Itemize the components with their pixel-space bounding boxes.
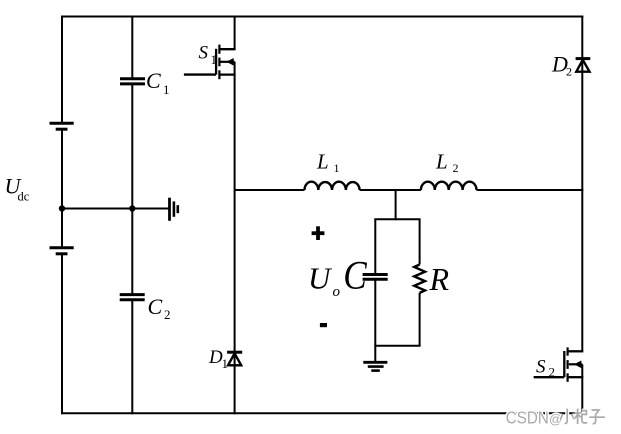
wire load box bottom [374, 345, 420, 347]
svg-text:o: o [333, 284, 341, 300]
label D2 [551, 52, 572, 79]
label S2 [536, 356, 555, 379]
svg-text:L: L [316, 150, 329, 174]
label minus sign [320, 323, 327, 327]
label D1 [208, 347, 228, 371]
svg-text:1: 1 [163, 82, 170, 97]
wire left rail middle segment [61, 129, 63, 248]
wire load box left lower (C branch) [374, 279, 376, 346]
label L1 [316, 150, 340, 175]
capacitor C2 [120, 295, 145, 300]
svg-text:C: C [148, 294, 163, 319]
wire filter output segment [477, 189, 584, 191]
svg-text:2: 2 [549, 365, 556, 380]
inductor L2 [421, 182, 477, 190]
wire capacitor-branch upper segment [131, 16, 133, 79]
label L2 [435, 150, 459, 175]
svg-text:1: 1 [222, 356, 229, 371]
diode D1 [227, 352, 242, 365]
watermark glyph xiao [560, 409, 574, 424]
svg-text:L: L [435, 150, 448, 174]
watermark glyph qi [574, 409, 587, 424]
svg-text:S: S [536, 356, 546, 377]
wire bottom bus [61, 412, 583, 414]
watermark glyph zi [589, 410, 605, 424]
resistor R [414, 265, 425, 293]
wire between L1 and L2 [360, 189, 421, 191]
wire load box right upper (R branch) [419, 219, 421, 264]
svg-text:CSDN: CSDN [506, 408, 549, 428]
svg-text:dc: dc [18, 190, 30, 204]
wire top bus [61, 16, 583, 18]
wire left rail upper segment [61, 16, 63, 124]
battery B2 [50, 248, 74, 254]
wire S2 source segment [581, 364, 583, 414]
ground load (earth) [363, 362, 387, 370]
wire left rail lower segment [61, 254, 63, 414]
label plus sign [312, 226, 325, 240]
svg-text:2: 2 [164, 307, 171, 322]
wire S2 gate lead [534, 376, 565, 378]
transistor S1 (MOSFET) [216, 45, 236, 80]
svg-text:C: C [343, 253, 367, 298]
svg-text:C: C [146, 68, 161, 93]
node junction dot capacitor branch midpoint [129, 205, 135, 211]
capacitor C1 [120, 79, 145, 84]
node junction dot left rail midpoint [59, 205, 65, 211]
diode D2 [576, 59, 591, 72]
svg-text:2: 2 [453, 161, 459, 175]
wire ground stub [374, 346, 376, 363]
wire S1 source / D1 branch [234, 62, 236, 414]
ground midpoint (rotated earth) [170, 198, 178, 221]
svg-text:U: U [308, 261, 333, 296]
wire S1 drain from top bus [234, 16, 236, 50]
wire S1 gate lead [184, 73, 216, 75]
wire right rail upper (D2 branch) [581, 16, 583, 352]
label Udc [5, 174, 30, 204]
svg-text:2: 2 [566, 65, 572, 79]
wire capacitor-branch middle segment [131, 84, 133, 295]
label C2 [148, 294, 171, 322]
wire load box left upper (C branch) [374, 219, 376, 274]
wire load box top [374, 218, 420, 220]
svg-text:R: R [429, 261, 450, 297]
wire capacitor-branch lower segment [131, 300, 133, 414]
wire midpoint link [62, 208, 170, 210]
wire load box right lower (R branch) [419, 293, 421, 346]
wire filter input segment [235, 189, 305, 191]
label C1 [146, 68, 170, 97]
battery B1 [50, 123, 74, 129]
capacitor C [363, 275, 388, 280]
label Uo [308, 261, 341, 301]
wire load tap vertical [395, 190, 397, 220]
transistor S2 (MOSFET) [564, 347, 583, 381]
label S1 [199, 42, 218, 66]
svg-text:S: S [199, 42, 209, 63]
inductor L1 [305, 182, 360, 190]
svg-text:1: 1 [334, 161, 340, 175]
svg-text:1: 1 [211, 52, 218, 67]
